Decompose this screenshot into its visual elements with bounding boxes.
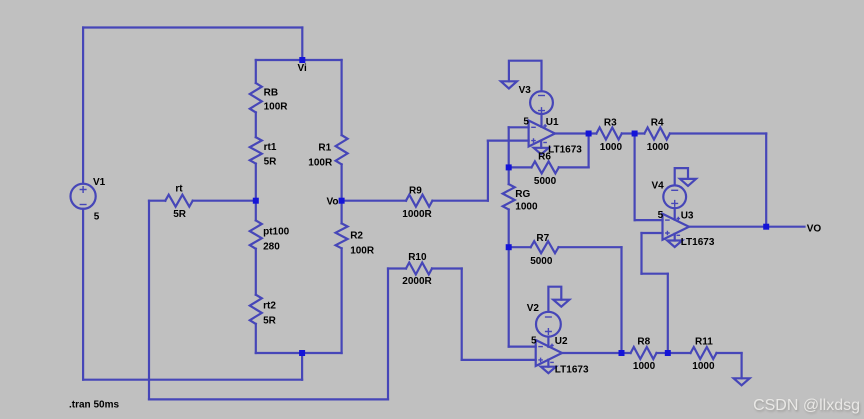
wire rt left drop — [148, 201, 150, 400]
polarity marks — [80, 96, 681, 363]
wire bridge top rail — [256, 59, 342, 61]
voltage source V1 — [71, 184, 96, 209]
ground at U3 — [667, 241, 682, 248]
svg-text:R4: R4 — [651, 118, 664, 129]
svg-text:U3: U3 — [681, 211, 694, 222]
wire bottom return — [83, 379, 302, 381]
resistor rt — [165, 195, 192, 207]
svg-text:5: 5 — [94, 212, 100, 223]
wire bridge bottom stub — [301, 353, 303, 380]
wire V3 to U1 supply — [540, 114, 542, 127]
wire V3 hook — [509, 61, 542, 91]
U2 plus input mark — [538, 358, 543, 363]
node bridge bottom mid — [299, 350, 305, 356]
ground at V4 — [680, 179, 696, 186]
svg-text:CSDN @llxdsg: CSDN @llxdsg — [753, 397, 860, 414]
voltage source V2 — [536, 312, 561, 337]
wire U3 plus input — [642, 232, 663, 234]
ground at V2 — [553, 300, 569, 307]
ground at R11 — [734, 378, 750, 385]
op-amp U1 — [529, 121, 555, 147]
wire R6 right lead — [559, 166, 589, 168]
node Vi junction — [299, 57, 305, 63]
svg-text:.tran 50ms: .tran 50ms — [69, 400, 119, 411]
ground at U1 — [534, 148, 549, 155]
svg-text:R7: R7 — [536, 233, 549, 244]
wire RB top lead — [255, 60, 257, 83]
svg-text:100R: 100R — [308, 158, 333, 169]
svg-text:5000: 5000 — [534, 176, 557, 187]
svg-text:R6: R6 — [538, 152, 551, 163]
wire R11 right lead — [717, 352, 742, 354]
wire R10 drop to U2 — [461, 269, 463, 360]
node bridge left mid — [253, 198, 259, 204]
wire R1 to R2 — [341, 164, 343, 223]
svg-text:5R: 5R — [173, 209, 187, 220]
svg-text:R2: R2 — [350, 230, 363, 241]
U1 supply minus mark — [543, 142, 547, 144]
ground at U2 — [541, 367, 556, 374]
svg-text:Vo: Vo — [327, 196, 339, 207]
wire V1 bottom leg — [82, 209, 84, 380]
wire R10 left riser — [387, 269, 389, 400]
wire R10 right lead — [432, 267, 462, 269]
svg-text:LT1673: LT1673 — [548, 144, 582, 155]
svg-text:rt2: rt2 — [263, 301, 276, 312]
wire R8 right lead — [657, 352, 668, 354]
wire R7 right lead — [559, 246, 622, 248]
wire bridge bottom rail — [256, 352, 342, 354]
wire U2 minus input — [509, 346, 536, 348]
svg-text:R3: R3 — [604, 118, 617, 129]
node Vo junction — [339, 198, 345, 204]
svg-text:5: 5 — [531, 335, 537, 346]
svg-text:1000: 1000 — [515, 202, 538, 213]
V1 minus mark — [80, 204, 87, 206]
V1 plus mark — [80, 186, 87, 193]
V3 minus mark — [538, 95, 545, 97]
wire R1 top lead — [341, 60, 343, 135]
node RG R7 junction — [506, 244, 512, 250]
svg-text:5R: 5R — [264, 156, 278, 167]
wire U1 output to R3 — [555, 132, 596, 134]
wire R3R4 node drop — [633, 134, 635, 221]
wire V4 to U3 supply — [674, 208, 676, 219]
svg-text:U2: U2 — [555, 336, 568, 347]
svg-text:R8: R8 — [637, 336, 650, 347]
ground at V3 — [501, 81, 517, 88]
V4 minus mark — [671, 189, 678, 191]
wire to U2 plus input — [462, 359, 536, 361]
V2 plus mark — [545, 328, 552, 335]
wire R4 drop to output — [765, 134, 767, 227]
resistor RG — [503, 184, 515, 209]
wire RG bottom lead — [508, 210, 510, 248]
svg-text:Vi: Vi — [298, 63, 307, 74]
node U1 output feedback — [586, 131, 592, 137]
resistor pt100 — [250, 220, 262, 248]
wire R3 to R4 — [622, 132, 645, 134]
U1 minus input mark — [531, 126, 536, 128]
wire R4 right run — [670, 132, 766, 134]
V3 plus mark — [538, 107, 545, 114]
wire V1 top leg — [82, 28, 84, 184]
svg-text:pt100: pt100 — [263, 227, 290, 238]
svg-text:1000: 1000 — [692, 361, 715, 372]
wire drop to R8 node — [667, 274, 669, 353]
wire R2 bottom lead — [341, 248, 343, 353]
node squares — [253, 57, 769, 356]
resistor rt2 — [250, 295, 262, 324]
resistor R1 — [336, 135, 348, 164]
wire pt100 to rt2 — [255, 249, 257, 295]
wire minus input drop — [508, 127, 510, 167]
wire R7 left lead — [509, 246, 531, 248]
op-amp U3 — [663, 214, 690, 240]
resistor R3 — [596, 128, 621, 140]
wire U3 plus run — [642, 273, 668, 275]
svg-text:5000: 5000 — [530, 256, 553, 267]
U1 plus input mark — [531, 138, 536, 143]
svg-text:5: 5 — [658, 210, 664, 221]
wire rt1 to pt100 — [255, 164, 257, 221]
resistor RB — [250, 83, 262, 112]
resistor R4 — [644, 128, 670, 140]
svg-text:1000R: 1000R — [402, 209, 432, 220]
wire rt right lead — [193, 200, 256, 202]
svg-text:R11: R11 — [695, 336, 713, 347]
node R8 left junction — [619, 350, 625, 356]
voltage source V4 — [663, 185, 686, 208]
svg-text:2000R: 2000R — [402, 276, 432, 287]
svg-text:rt1: rt1 — [264, 142, 277, 153]
U3 minus input mark — [665, 219, 670, 221]
op-amp U2 — [536, 340, 562, 366]
wire to U1 plus input — [488, 140, 529, 142]
wire V4 hook — [675, 168, 688, 185]
svg-text:280: 280 — [263, 242, 280, 253]
resistor rt1 — [250, 137, 262, 163]
svg-text:R10: R10 — [408, 252, 427, 263]
wire rt left lead — [149, 200, 165, 202]
svg-text:R1: R1 — [318, 143, 331, 154]
resistor R2 — [336, 223, 348, 248]
resistor R10 — [406, 263, 432, 275]
U3 plus input mark — [665, 231, 670, 236]
U2 supply minus mark — [550, 361, 554, 363]
wire output to VO — [766, 226, 804, 228]
wire RG node to U2 minus — [508, 247, 510, 346]
node VO output junction — [763, 224, 769, 230]
svg-text:RG: RG — [515, 189, 530, 200]
wire U3 plus drop — [640, 233, 642, 274]
U1 supply plus mark — [543, 124, 547, 128]
wire U3 minus input — [635, 219, 663, 221]
svg-text:V4: V4 — [652, 181, 665, 192]
wire R9 right lead — [432, 200, 488, 202]
resistor R9 — [406, 195, 432, 207]
node R8 R11 junction — [665, 350, 671, 356]
wire U1 ground stem — [540, 141, 542, 148]
svg-text:LT1673: LT1673 — [681, 237, 715, 248]
wire RB to rt1 — [255, 112, 257, 137]
svg-text:rt: rt — [175, 184, 183, 195]
wire R6 riser to output — [587, 134, 589, 168]
wire Vo to R9 — [342, 200, 406, 202]
wire V2 to U2 supply — [547, 337, 549, 347]
wire U3 ground stem — [674, 234, 676, 241]
svg-text:VO: VO — [807, 223, 822, 234]
svg-text:V2: V2 — [527, 303, 540, 314]
wire R10 left lead — [388, 267, 406, 269]
resistor R6 — [532, 161, 559, 173]
resistor R11 — [691, 347, 717, 359]
wire R6 left lead — [509, 166, 532, 168]
svg-text:100R: 100R — [264, 102, 289, 113]
U3 supply plus mark — [677, 217, 681, 221]
wire R9 riser to U1 — [487, 141, 489, 201]
wire R11 ground drop — [740, 353, 742, 378]
V2 minus mark — [545, 316, 552, 318]
wire U2 ground stem — [547, 360, 549, 367]
wire rt2 bottom lead — [255, 324, 257, 353]
wire R11 left lead — [668, 352, 691, 354]
svg-text:V3: V3 — [519, 85, 532, 96]
svg-text:5R: 5R — [263, 316, 277, 327]
svg-text:1000: 1000 — [647, 142, 670, 153]
wire U1 minus input — [509, 126, 529, 128]
U2 supply plus mark — [550, 344, 554, 348]
resistor R7 — [531, 241, 559, 253]
node R6 RG junction — [506, 164, 512, 170]
V4 plus mark — [671, 200, 678, 207]
wire V2 hook — [548, 287, 561, 312]
svg-text:1000: 1000 — [633, 361, 656, 372]
U2 minus input mark — [538, 346, 543, 348]
wire top from V1 to Vi — [83, 26, 302, 28]
svg-text:LT1673: LT1673 — [555, 364, 589, 375]
svg-text:R9: R9 — [409, 186, 422, 197]
svg-text:RB: RB — [264, 87, 278, 98]
wire U2 output — [562, 352, 631, 354]
resistor R8 — [631, 347, 657, 359]
node R3 R4 junction — [632, 131, 638, 137]
svg-text:V1: V1 — [93, 177, 106, 188]
svg-text:1000: 1000 — [600, 142, 623, 153]
svg-text:100R: 100R — [350, 245, 375, 256]
svg-text:U1: U1 — [546, 117, 559, 128]
voltage source V3 — [530, 91, 553, 114]
U3 supply minus mark — [677, 234, 681, 236]
wire R7 drop to R8 — [620, 247, 622, 353]
wire U3 output — [689, 226, 766, 228]
svg-text:5: 5 — [523, 116, 529, 127]
wire Vi drop — [301, 28, 303, 61]
wire bottom run to R10 — [149, 398, 388, 400]
wire RG top lead — [508, 167, 510, 184]
